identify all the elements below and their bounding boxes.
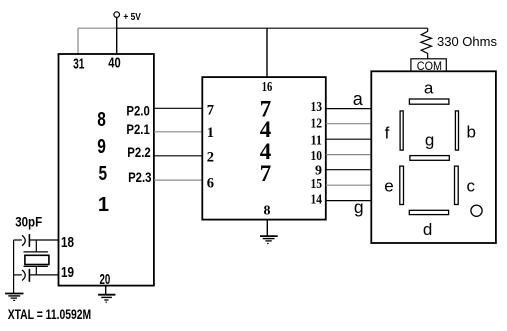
svg-text:b: b bbox=[466, 123, 475, 142]
node COM box bbox=[411, 59, 446, 71]
display DS1 body bbox=[371, 71, 496, 243]
wire P2.3 to 7447 pin 6 bbox=[154, 179, 202, 181]
svg-text:9: 9 bbox=[97, 136, 106, 158]
decimal point bbox=[471, 205, 482, 216]
svg-text:40: 40 bbox=[108, 54, 120, 71]
svg-text:P2.0: P2.0 bbox=[126, 103, 150, 119]
svg-text:f: f bbox=[385, 123, 390, 142]
crystal X1 bottom lead bbox=[35, 266, 37, 275]
wire pin 9 to segment e bbox=[326, 169, 372, 171]
segment a bar bbox=[409, 99, 449, 104]
svg-text:XTAL = 11.0592M: XTAL = 11.0592M bbox=[8, 306, 92, 322]
crystal X1 top lead bbox=[35, 240, 37, 252]
wire pin 18 bbox=[30, 239, 59, 241]
segment b bar bbox=[455, 111, 458, 150]
IC U1 8951 body bbox=[59, 54, 154, 286]
wire pin 19 bbox=[30, 274, 59, 276]
svg-text:c: c bbox=[466, 177, 475, 196]
capacitor C1 30pF curved plate bbox=[22, 235, 25, 246]
wire +5V bus left segment bbox=[78, 27, 117, 29]
segment d bar bbox=[409, 210, 448, 214]
svg-text:30pF: 30pF bbox=[15, 215, 42, 230]
svg-text:P2.3: P2.3 bbox=[128, 169, 152, 185]
crystal X1 body bbox=[25, 255, 49, 264]
wire pin 13 to segment a bbox=[326, 108, 372, 110]
svg-text:20: 20 bbox=[100, 272, 111, 288]
wire 7447 pin 8 to ground bbox=[266, 220, 268, 237]
svg-text:1: 1 bbox=[207, 125, 214, 141]
crystal X1 bottom plate bbox=[24, 265, 48, 267]
svg-text:15: 15 bbox=[311, 177, 323, 192]
svg-text:330 Ohms: 330 Ohms bbox=[437, 34, 497, 49]
svg-text:g: g bbox=[354, 197, 364, 217]
segment f bar bbox=[400, 111, 403, 150]
wire P2.1 to 7447 pin 1 bbox=[154, 131, 202, 133]
svg-text:12: 12 bbox=[311, 117, 323, 132]
ground (crystal) bbox=[5, 294, 23, 301]
svg-text:8: 8 bbox=[264, 204, 271, 219]
svg-text:5: 5 bbox=[99, 163, 108, 185]
capacitor C1 straight plate bbox=[28, 234, 30, 247]
wire pin 12 to segment f bbox=[326, 123, 372, 125]
crystal X1 top plate bbox=[24, 251, 48, 253]
svg-text:18: 18 bbox=[61, 235, 74, 251]
segment e bar bbox=[400, 166, 404, 204]
wire pin 10 to segment g bbox=[326, 154, 372, 156]
wire capacitor bus stub bottom bbox=[14, 274, 22, 276]
svg-text:a: a bbox=[424, 78, 434, 97]
ground (pin 20) bbox=[98, 295, 115, 303]
wire bus to 7447 pin 16 bbox=[266, 28, 268, 77]
wire P2.2 to 7447 pin 2 bbox=[154, 155, 202, 157]
svg-text:16: 16 bbox=[262, 80, 273, 95]
wire pin 11 to segment b bbox=[326, 138, 372, 140]
svg-text:13: 13 bbox=[311, 100, 323, 115]
svg-text:e: e bbox=[384, 177, 393, 196]
wire capacitor bus vertical bbox=[13, 240, 15, 293]
svg-text:7: 7 bbox=[207, 103, 214, 119]
svg-text:1: 1 bbox=[98, 194, 109, 216]
svg-text:11: 11 bbox=[311, 134, 323, 149]
svg-text:g: g bbox=[425, 131, 434, 150]
wire pin 15 to segment c bbox=[326, 184, 372, 186]
svg-text:8: 8 bbox=[97, 109, 106, 131]
wire +5V bus bbox=[116, 27, 428, 29]
svg-text:a: a bbox=[353, 89, 364, 109]
wire capacitor bus stub top bbox=[14, 239, 22, 241]
wire P2.0 to 7447 pin 7 bbox=[154, 107, 202, 109]
resistor R1 bbox=[421, 31, 432, 59]
svg-text:10: 10 bbox=[311, 149, 323, 164]
capacitor C2 straight plate bbox=[28, 269, 30, 282]
svg-text:14: 14 bbox=[311, 192, 323, 207]
capacitor C2 30pF curved plate bbox=[22, 270, 25, 281]
segment c bar bbox=[455, 166, 459, 204]
wire pin 14 to segment d bbox=[326, 200, 372, 202]
wire bus to resistor bbox=[427, 28, 429, 31]
ground (7447) bbox=[260, 236, 278, 243]
svg-text:P2.2: P2.2 bbox=[127, 144, 151, 160]
+5V supply terminal bbox=[114, 12, 120, 18]
svg-text:19: 19 bbox=[61, 265, 74, 281]
segment g bar bbox=[410, 156, 449, 161]
svg-text:31: 31 bbox=[73, 56, 84, 73]
svg-text:7: 7 bbox=[260, 161, 272, 186]
svg-text:+ 5V: + 5V bbox=[123, 11, 140, 23]
IC U2 7447 body bbox=[202, 77, 325, 220]
svg-text:P2.1: P2.1 bbox=[126, 121, 150, 137]
svg-text:2: 2 bbox=[207, 150, 214, 166]
svg-text:d: d bbox=[423, 220, 432, 239]
svg-text:6: 6 bbox=[207, 176, 214, 192]
wire bus to pin 31 bbox=[77, 28, 79, 54]
wire pin 20 to ground bbox=[105, 286, 107, 295]
wire +5V terminal to pin 40 bbox=[116, 17, 118, 54]
